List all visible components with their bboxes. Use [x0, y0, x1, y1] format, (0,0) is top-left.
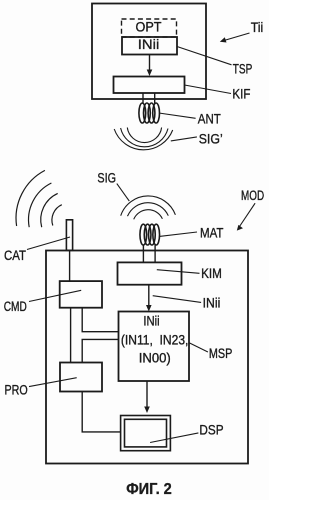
label KIF with leader: [185, 85, 232, 94]
wire CMD to PRO: [70, 308, 72, 363]
processor block PRO: [60, 363, 102, 392]
antenna rod CAT: [66, 220, 72, 251]
label MSP with leader: [189, 343, 208, 352]
interface block KIM: [118, 262, 182, 284]
label SIG' with leader: [171, 137, 197, 141]
svg-text:KIM: KIM: [201, 266, 222, 281]
svg-text:SIG: SIG: [97, 170, 116, 185]
wire TSP box to coil (right): [154, 93, 156, 104]
svg-text:MOD: MOD: [241, 188, 264, 203]
wire CMD to MSP: [82, 308, 118, 332]
svg-text:IN00): IN00): [139, 351, 171, 366]
svg-text:SIG’: SIG’: [199, 132, 223, 147]
wire PRO to DSP: [82, 392, 120, 432]
antenna coil MAT: [140, 224, 160, 245]
svg-text:ФИГ. 2: ФИГ. 2: [126, 481, 172, 498]
svg-text:MAT: MAT: [200, 225, 223, 240]
label MAT with leader: [159, 232, 197, 236]
incoming signal arcs SIG: [121, 196, 176, 219]
transponder unit box Tii: [92, 4, 206, 100]
radiated signal arcs SIG': [114, 128, 173, 150]
wire MAT coil to KIM (right): [154, 245, 156, 262]
svg-text:CMD: CMD: [4, 299, 27, 314]
svg-text:ANT: ANT: [198, 111, 221, 126]
optional block OPT (dashed): [122, 19, 177, 37]
svg-text:(IN11, IN23,: (IN11, IN23,: [121, 332, 188, 347]
processing block (TSP): [114, 77, 185, 94]
svg-text:INii: INii: [203, 295, 221, 310]
arrow INii to TSP block: [149, 55, 151, 71]
svg-text:PRO: PRO: [5, 382, 28, 397]
arrow KIM to MSP: [148, 285, 150, 306]
svg-text:Tii: Tii: [251, 20, 264, 35]
received signal arcs (CAT): [16, 170, 62, 227]
svg-text:MSP: MSP: [209, 346, 232, 361]
label TSP with leader: [177, 47, 232, 65]
arrow MSP to DSP: [146, 381, 148, 408]
wire CAT rod to CMD: [69, 250, 71, 281]
wire MSP to PRO: [82, 339, 118, 362]
label KIM with leader: [157, 270, 200, 274]
svg-text:CAT: CAT: [4, 248, 26, 263]
command block CMD: [60, 281, 102, 308]
wire MAT coil to KIM (left): [142, 245, 144, 262]
svg-text:OPT: OPT: [136, 20, 162, 35]
wire TSP box to coil (left): [142, 93, 144, 104]
memory block INii (top): [122, 37, 177, 55]
svg-text:KIF: KIF: [232, 86, 250, 101]
antenna coil ANT: [139, 103, 160, 123]
svg-text:INii: INii: [143, 314, 159, 329]
svg-text:DSP: DSP: [199, 423, 223, 438]
label INii (signal) with leader: [153, 296, 201, 303]
modem unit box MOD: [46, 251, 248, 464]
svg-text:INii: INii: [138, 37, 160, 52]
display block DSP (double border): [121, 416, 171, 451]
memory block MSP: [119, 312, 190, 382]
svg-text:TSP: TSP: [233, 62, 253, 77]
label ANT with leader: [159, 113, 196, 118]
label DSP with leader: [150, 433, 198, 443]
